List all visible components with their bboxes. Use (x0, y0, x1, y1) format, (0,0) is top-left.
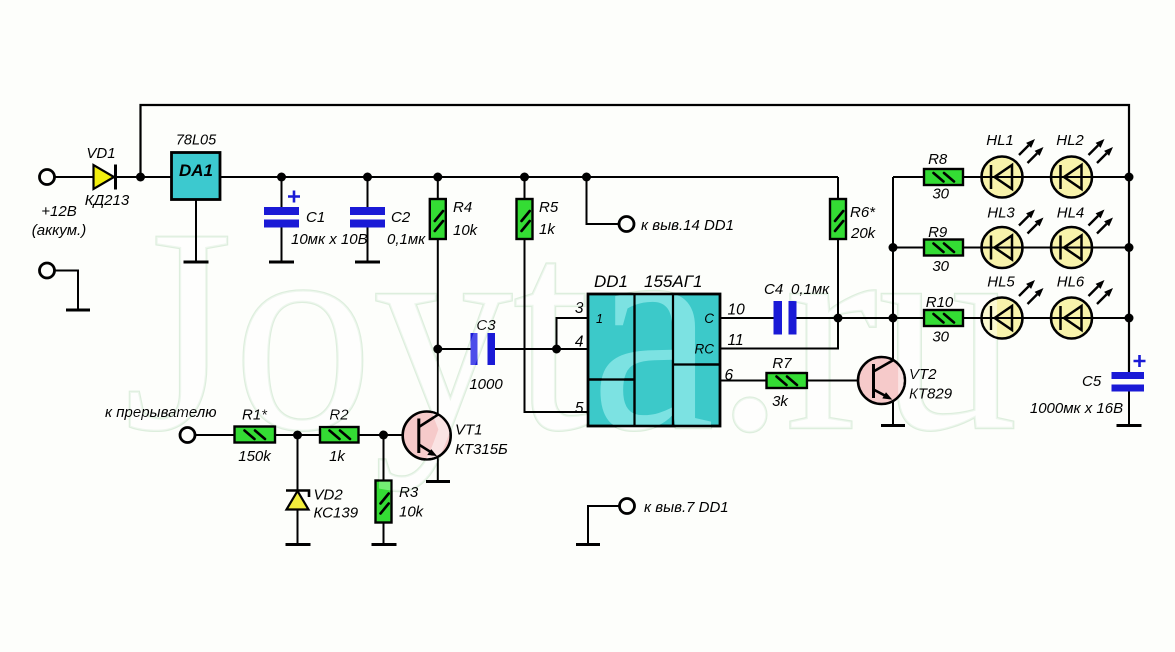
terminal к выв.7 DD1 (588, 499, 729, 545)
node C3 right / pin4 (552, 345, 561, 354)
svg-text:R8: R8 (928, 151, 948, 168)
node row1 right (1125, 173, 1134, 182)
capacitor C5 1000мк x 16В (1030, 355, 1146, 417)
ground battery minus (66, 309, 90, 312)
svg-text:Joyta.ru: Joyta.ru (124, 169, 1018, 492)
capacitor C1 10мк x 10В (264, 177, 368, 262)
wire main +5V rail (220, 176, 838, 178)
LED symbol HL3 (987, 205, 1043, 260)
node C4 right / R6 bottom (834, 314, 843, 323)
svg-text:78L05: 78L05 (176, 133, 217, 149)
LED HL2 (1051, 157, 1092, 198)
wire node to LED row 3 (838, 317, 893, 319)
LED HL3 (982, 227, 1023, 268)
node R3 tap (379, 431, 388, 440)
svg-text:10k: 10k (399, 504, 425, 521)
node VD2 tap (293, 431, 302, 440)
LED HL4 (1051, 227, 1092, 268)
zener VD2 КС139 (286, 435, 359, 545)
node at VD1 output (136, 173, 145, 182)
svg-text:1000мк x 16В: 1000мк x 16В (1030, 400, 1123, 417)
wire R7 to VT2 base (807, 380, 874, 382)
svg-text:HL1: HL1 (986, 132, 1014, 149)
wire pin4 node up to pin 3 (557, 318, 589, 349)
resistor R8 30 (924, 151, 963, 203)
ground VT1 (426, 480, 450, 483)
wire terminal to VD1 (55, 176, 93, 178)
wire LED row 2 (893, 247, 1129, 249)
wire DA1 ground pin (195, 200, 197, 263)
LED HL6 (1051, 298, 1092, 339)
node row2 right (1125, 243, 1134, 252)
node row3 left (889, 314, 898, 323)
node C2 (363, 173, 372, 182)
ground R3 (372, 543, 397, 546)
resistor R2 1k (320, 407, 359, 466)
svg-text:HL6: HL6 (1057, 274, 1085, 291)
node row2 left (889, 243, 898, 252)
wire R3 to ground (383, 523, 385, 545)
wire LED row 3 (893, 317, 1129, 319)
node pin14 branch (582, 173, 591, 182)
wire VT2 emitter to ground (892, 400, 894, 426)
wire R1 to R2 (275, 434, 320, 436)
svg-text:VD1: VD1 (86, 145, 115, 162)
ground DA1 (184, 261, 209, 264)
svg-text:КС139: КС139 (314, 505, 359, 522)
terminal +12V input (32, 170, 86, 240)
resistor R6* 20k (830, 177, 877, 242)
IC DD1 155АГ1 (588, 272, 720, 426)
terminal к прерывателю (105, 404, 217, 443)
diode VD1 КД213 (85, 145, 130, 209)
node R5 (520, 173, 529, 182)
LED HL1 (982, 157, 1023, 198)
capacitor C4 0,1мк (720, 281, 838, 335)
wire VT1 emitter to ground (437, 457, 439, 482)
node C3 left on collector line (433, 345, 442, 354)
wire R2 to VT1 base (359, 434, 405, 436)
wire R5 down to pin 5 (525, 239, 589, 412)
resistor R3 10k (376, 435, 425, 523)
resistor R10 30 (924, 294, 963, 346)
ground terminal выв.7 (576, 543, 600, 546)
svg-text:к выв.7 DD1: к выв.7 DD1 (644, 499, 729, 516)
LED symbol HL1 (986, 132, 1043, 189)
svg-text:+12В: +12В (41, 203, 76, 220)
ground VD2 (286, 543, 311, 546)
terminal battery minus (40, 263, 79, 310)
ground VT2 (881, 424, 905, 427)
wire terminal to R1 (195, 434, 235, 436)
LED symbol HL5 (987, 274, 1043, 331)
LED symbol HL2 (1056, 132, 1113, 189)
wire R4 down to VT1 collector (437, 239, 439, 415)
LED symbol HL4 (1057, 205, 1113, 260)
LED HL5 (982, 298, 1023, 339)
resistor R1* 150k (235, 407, 276, 466)
resistor R9 30 (924, 224, 963, 275)
ground C5 (1117, 424, 1142, 427)
ground C2 (355, 261, 380, 264)
wire LED feed vertical (VT2 collector up to row 1) (892, 177, 894, 360)
resistor R4 10k (430, 177, 479, 239)
wire R6 down to node (837, 239, 839, 318)
transistor VT2 КТ829 (858, 357, 953, 404)
svg-text:HL4: HL4 (1057, 205, 1085, 222)
resistor R5 1k (517, 177, 559, 239)
wire VD1 to DA1 (116, 176, 172, 178)
terminal к выв.14 DD1 (587, 177, 734, 234)
regulator DA1 78L05 (172, 133, 221, 200)
node row3 right (1125, 314, 1134, 323)
wire top rail (up from VD1 node, across top, down right side to C5) (141, 105, 1130, 372)
node R4 (433, 173, 442, 182)
LED symbol HL6 (1057, 274, 1113, 331)
transistor VT1 КТ315Б (403, 412, 508, 460)
wire LED row 1 (893, 176, 1129, 178)
node C1 (277, 173, 286, 182)
ground C1 (269, 261, 294, 264)
svg-text:HL2: HL2 (1056, 132, 1084, 149)
svg-text:(аккум.): (аккум.) (32, 222, 86, 239)
wire C5 to ground (1128, 392, 1130, 426)
wire pin 11 to node (720, 318, 838, 349)
resistor R7 3k (720, 355, 807, 410)
capacitor C2 0,1мк (350, 177, 426, 262)
svg-text:C5: C5 (1082, 373, 1102, 390)
capacitor C3 1000 (438, 317, 588, 393)
